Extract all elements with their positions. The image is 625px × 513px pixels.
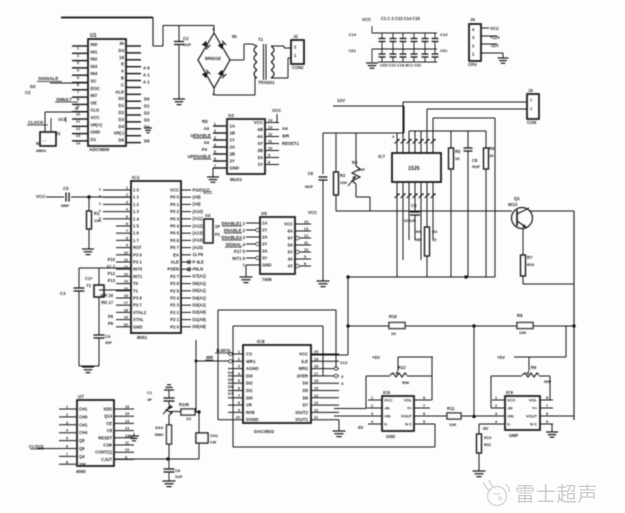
IOUT1 wire to ground bbox=[338, 420, 340, 431]
svg-text:SIGNAL 4: SIGNAL 4 bbox=[225, 242, 245, 247]
IC8 left pin wires bbox=[205, 348, 243, 420]
svg-text:WR: WR bbox=[282, 134, 290, 139]
capacitor C8 column bbox=[464, 131, 481, 277]
svg-text:P 4LE: P 4LE bbox=[193, 259, 205, 264]
svg-text:P0 3: P0 3 bbox=[170, 216, 179, 221]
svg-text:C1M: C1M bbox=[103, 443, 112, 448]
svg-text:INT1 6: INT1 6 bbox=[232, 256, 245, 261]
svg-text:EOC: EOC bbox=[91, 86, 101, 91]
ground below chain bbox=[163, 481, 176, 487]
svg-text:11: 11 bbox=[124, 258, 128, 262]
svg-text:7: 7 bbox=[77, 89, 79, 94]
IC9 output wire to rail bbox=[540, 415, 574, 417]
svg-text:P3 7: P3 7 bbox=[133, 303, 142, 308]
ground below crystal bbox=[82, 366, 94, 373]
svg-text:4060: 4060 bbox=[76, 469, 86, 474]
svg-text:VOL: VOL bbox=[529, 397, 538, 402]
svg-text:A 1: A 1 bbox=[143, 73, 150, 78]
bottom loop wire bbox=[233, 446, 435, 448]
vertical bus to opamp2 input bbox=[473, 326, 475, 417]
IC X2 body bbox=[227, 113, 265, 182]
wire Q1 collector to right rail bbox=[529, 211, 574, 420]
watermark logo bbox=[483, 480, 509, 506]
svg-text:8: 8 bbox=[546, 396, 548, 400]
svg-text:C61: C61 bbox=[440, 48, 448, 53]
svg-text:3: 3 bbox=[495, 412, 497, 416]
svg-text:P0 0: P0 0 bbox=[170, 195, 179, 200]
svg-text:CON2: CON2 bbox=[292, 65, 304, 70]
svg-text:NM: NM bbox=[415, 237, 421, 242]
svg-text:6A: 6A bbox=[288, 229, 293, 234]
1525 top pin wires bbox=[397, 102, 433, 153]
svg-text:VR(+): VR(+) bbox=[91, 122, 103, 127]
svg-text:R6: R6 bbox=[489, 146, 495, 151]
svg-text:D3(A1): D3(A1) bbox=[193, 303, 207, 308]
svg-text:VOL: VOL bbox=[404, 397, 413, 402]
svg-text:D0: D0 bbox=[118, 96, 124, 101]
svg-text:A 6: A 6 bbox=[143, 66, 150, 71]
X2 right pin wires bbox=[265, 108, 300, 165]
svg-text:IC8: IC8 bbox=[257, 339, 265, 345]
svg-text:DGND: DGND bbox=[246, 417, 259, 422]
svg-text:SC: SC bbox=[91, 79, 98, 84]
svg-text:CS: CS bbox=[246, 352, 252, 357]
svg-text:SIGNALE: SIGNALE bbox=[38, 76, 58, 81]
resistor R7 emitter bbox=[521, 228, 575, 284]
svg-text:VOUT: VOUT bbox=[526, 413, 538, 418]
svg-text:C3: C3 bbox=[60, 291, 66, 296]
1525 bottom pin number hatch row bbox=[395, 194, 436, 199]
svg-text:VCC: VCC bbox=[308, 210, 318, 215]
svg-text:3A: 3A bbox=[262, 249, 267, 254]
svg-text:R13: R13 bbox=[484, 435, 492, 440]
wire 1525 to J3 pin2 bbox=[427, 108, 527, 110]
svg-text:T1: T1 bbox=[258, 37, 264, 42]
svg-text:1C2: 1C2 bbox=[340, 360, 348, 365]
resistor R5 column bbox=[449, 131, 461, 277]
U1 right pin wires bbox=[126, 46, 150, 144]
svg-text:17: 17 bbox=[124, 301, 128, 305]
watermark text bbox=[515, 483, 598, 506]
svg-text:1 2: 1 2 bbox=[133, 202, 140, 207]
svg-text:13: 13 bbox=[314, 401, 318, 405]
svg-text:3B: 3B bbox=[257, 148, 263, 153]
svg-text:RESET1: RESET1 bbox=[282, 141, 300, 146]
svg-text:+IN: +IN bbox=[507, 413, 513, 418]
svg-text:IN: IN bbox=[120, 41, 124, 46]
IC7 SG1525 body bbox=[378, 153, 441, 182]
svg-text:P0 5: P0 5 bbox=[170, 231, 179, 236]
svg-text:+5V: +5V bbox=[372, 355, 380, 360]
svg-text:X4: X4 bbox=[205, 213, 211, 218]
svg-text:4B: 4B bbox=[257, 127, 263, 132]
svg-text:C6: C6 bbox=[308, 171, 314, 176]
opamp IC9 body bbox=[505, 390, 540, 438]
svg-text:VCC: VCC bbox=[36, 194, 46, 199]
wire left rail of 1525 bbox=[323, 133, 404, 174]
12V supply rail bbox=[333, 98, 404, 133]
svg-text:P3 1: P3 1 bbox=[133, 260, 142, 265]
svg-text:10K: 10K bbox=[449, 422, 456, 427]
svg-text:...: ... bbox=[43, 137, 46, 142]
connector J3 bbox=[527, 88, 539, 125]
svg-text:4P: 4P bbox=[147, 397, 152, 402]
svg-text:Q6: Q6 bbox=[79, 446, 85, 451]
svg-text:VCC: VCC bbox=[254, 120, 264, 125]
bus wire y326 with R16 R8 bbox=[346, 324, 575, 327]
svg-text:IN3: IN3 bbox=[91, 64, 98, 69]
svg-text:3A: 3A bbox=[257, 155, 263, 160]
svg-text:R11: R11 bbox=[447, 406, 455, 411]
svg-text:XTAL: XTAL bbox=[133, 317, 144, 322]
wire pin row to right column bbox=[433, 118, 495, 277]
svg-text:16: 16 bbox=[125, 405, 129, 409]
svg-text:SIMULT: SIMULT bbox=[56, 97, 72, 102]
IC6 pin wires bbox=[368, 396, 430, 424]
svg-text:3: 3 bbox=[66, 421, 68, 425]
svg-text:Q1: Q1 bbox=[514, 196, 520, 201]
svg-text:19: 19 bbox=[314, 357, 318, 361]
svg-text:C65 C10 C18 8C1 C01: C65 C10 C18 8C1 C01 bbox=[380, 63, 422, 68]
svg-text:10: 10 bbox=[236, 416, 240, 420]
svg-text:D6(A1): D6(A1) bbox=[193, 281, 207, 286]
svg-text:C1 C 2 C13 C14 C15: C1 C 2 C13 C14 C15 bbox=[381, 16, 421, 21]
svg-text:R4: R4 bbox=[416, 229, 422, 234]
svg-text:EA: EA bbox=[173, 252, 179, 257]
svg-text:RD 17: RD 17 bbox=[101, 300, 113, 305]
svg-text:D1: D1 bbox=[118, 103, 124, 108]
svg-text:BRIDGE: BRIDGE bbox=[205, 56, 221, 61]
svg-text:(A12): (A12) bbox=[193, 223, 204, 228]
svg-text:CH1: CH1 bbox=[79, 407, 88, 412]
svg-text:D0(A8): D0(A8) bbox=[193, 324, 207, 329]
svg-text:8051: 8051 bbox=[137, 335, 148, 340]
svg-text:2: 2 bbox=[371, 404, 373, 408]
svg-text:CONT(1): CONT(1) bbox=[95, 450, 112, 455]
IC1 left pin wires bbox=[99, 186, 131, 327]
resistor R8 bbox=[517, 313, 533, 335]
svg-text:D3: D3 bbox=[144, 118, 150, 123]
svg-text:C8: C8 bbox=[107, 428, 113, 433]
capacitor C2 filter bbox=[174, 26, 192, 100]
resistor R6 column bbox=[484, 131, 495, 277]
svg-text:IOUT1: IOUT1 bbox=[295, 417, 308, 422]
svg-text:RST: RST bbox=[133, 245, 142, 250]
svg-text:D2: D2 bbox=[144, 111, 150, 116]
svg-text:R4: R4 bbox=[432, 229, 438, 234]
svg-text:1K: 1K bbox=[489, 153, 494, 158]
svg-text:20: 20 bbox=[314, 350, 318, 354]
svg-text:R1: R1 bbox=[94, 211, 100, 216]
svg-text:1: 1 bbox=[126, 186, 128, 190]
svg-text:EA4: EA4 bbox=[155, 425, 163, 430]
svg-text:P5LN: P5LN bbox=[193, 267, 204, 272]
resistor R1 10K bbox=[87, 197, 102, 249]
svg-text:8: 8 bbox=[238, 401, 240, 405]
X2 ground bbox=[207, 168, 227, 182]
svg-text:20: 20 bbox=[124, 323, 128, 327]
svg-text:4A: 4A bbox=[257, 134, 263, 139]
svg-text:C8: C8 bbox=[472, 158, 478, 163]
svg-text:18: 18 bbox=[314, 365, 318, 369]
svg-text:DI1: DI1 bbox=[246, 388, 253, 393]
svg-text:IC6: IC6 bbox=[383, 390, 390, 395]
svg-text:1 3: 1 3 bbox=[133, 209, 140, 214]
svg-text:12: 12 bbox=[314, 408, 318, 412]
svg-text:CPU: CPU bbox=[468, 62, 477, 67]
svg-text:GND: GND bbox=[91, 130, 101, 135]
svg-text:GND: GND bbox=[230, 166, 240, 171]
svg-text:6: 6 bbox=[66, 445, 68, 449]
chain bottom wire bbox=[169, 458, 199, 460]
svg-text:1P: 1P bbox=[215, 224, 220, 229]
svg-text:7: 7 bbox=[66, 452, 68, 456]
svg-text:VCC: VCC bbox=[91, 115, 101, 120]
svg-text:1U: 1U bbox=[186, 416, 191, 421]
svg-text:U7: U7 bbox=[78, 394, 84, 399]
svg-text:UENABLE: UENABLE bbox=[190, 133, 211, 138]
svg-text:VCC: VCC bbox=[490, 26, 500, 31]
svg-text:-5V: -5V bbox=[482, 426, 489, 431]
svg-text:3: 3 bbox=[126, 200, 128, 204]
svg-text:IN2: IN2 bbox=[91, 57, 98, 62]
svg-text:5A: 5A bbox=[288, 243, 293, 248]
svg-text:8: 8 bbox=[126, 236, 128, 240]
svg-text:1K: 1K bbox=[391, 331, 396, 336]
svg-text:U1: U1 bbox=[90, 33, 97, 39]
svg-text:1B: 1B bbox=[230, 131, 236, 136]
svg-text:D5(A1): D5(A1) bbox=[193, 288, 207, 293]
svg-text:2Y: 2Y bbox=[262, 242, 267, 247]
svg-text:P10: P10 bbox=[108, 257, 116, 262]
svg-text:RD: RD bbox=[202, 119, 208, 124]
svg-text:5: 5 bbox=[423, 420, 425, 424]
svg-text:7: 7 bbox=[126, 229, 128, 233]
svg-text:D1(A9): D1(A9) bbox=[193, 317, 207, 322]
wire top rail from U1 to bridge bbox=[61, 18, 214, 47]
svg-text:D2: D2 bbox=[118, 110, 124, 115]
svg-text:10K: 10K bbox=[519, 330, 526, 335]
transistor Q1 bbox=[508, 196, 533, 229]
svg-text:D1: D1 bbox=[55, 131, 61, 136]
IC8 DAC0832 body bbox=[243, 339, 311, 434]
svg-text:2: 2 bbox=[495, 404, 497, 408]
svg-text:6: 6 bbox=[423, 412, 425, 416]
svg-text:P0 2: P0 2 bbox=[170, 209, 179, 214]
svg-text:CE: CE bbox=[106, 421, 112, 426]
svg-text:3Y: 3Y bbox=[262, 256, 267, 261]
transformer T1 bbox=[252, 37, 275, 85]
svg-text:2Y: 2Y bbox=[230, 159, 235, 164]
svg-text:T0: T0 bbox=[133, 281, 139, 286]
IC1 right pin wires and labels bbox=[181, 187, 213, 329]
svg-text:XTAL2: XTAL2 bbox=[133, 310, 147, 315]
svg-text:DAC0832: DAC0832 bbox=[254, 429, 275, 434]
svg-text:C4: C4 bbox=[411, 203, 417, 208]
X5 ground bbox=[240, 265, 253, 283]
svg-text:1Y: 1Y bbox=[262, 228, 267, 233]
svg-text:5: 5 bbox=[238, 379, 240, 383]
capacitor C9 on pin bbox=[404, 203, 420, 240]
svg-text:IN: IN bbox=[232, 34, 237, 39]
reset circuit VCC C5 R1 bbox=[36, 186, 131, 208]
svg-text:1 0: 1 0 bbox=[133, 188, 140, 193]
svg-text:DI3: DI3 bbox=[246, 373, 253, 378]
svg-text:5Y: 5Y bbox=[288, 250, 293, 255]
svg-text:1525: 1525 bbox=[408, 166, 420, 172]
svg-text:GND: GND bbox=[133, 324, 142, 329]
svg-text:16: 16 bbox=[119, 55, 124, 60]
wire transformer secondary to CON2 bbox=[271, 46, 291, 78]
svg-text:9: 9 bbox=[126, 244, 128, 248]
resistor EA vertical bbox=[155, 425, 172, 444]
potentiometer RW1 bbox=[163, 405, 172, 459]
CONT output wire bbox=[114, 457, 170, 460]
svg-text:VR(-): VR(-) bbox=[114, 131, 125, 136]
svg-text:VCC: VCC bbox=[507, 397, 516, 402]
svg-text:IN0: IN0 bbox=[91, 42, 98, 47]
svg-text:P9: P9 bbox=[108, 321, 114, 326]
svg-text:3Y: 3Y bbox=[258, 162, 263, 167]
svg-text:7: 7 bbox=[546, 404, 548, 408]
svg-text:P2 5: P2 5 bbox=[170, 288, 179, 293]
svg-text:P2 1: P2 1 bbox=[170, 317, 179, 322]
svg-text:CLOCK: CLOCK bbox=[28, 120, 44, 125]
connector J4 bbox=[468, 17, 503, 67]
svg-text:B: B bbox=[121, 76, 124, 81]
svg-text:C14: C14 bbox=[440, 32, 448, 37]
U7 left pin wires bbox=[29, 405, 77, 464]
DAC outer loop wire bbox=[218, 310, 336, 420]
svg-text:ENABLE4 3: ENABLE4 3 bbox=[222, 235, 246, 240]
svg-text:J2: J2 bbox=[293, 34, 298, 39]
svg-text:9013: 9013 bbox=[508, 202, 518, 207]
svg-text:2A: 2A bbox=[262, 235, 267, 240]
svg-text:CH1: CH1 bbox=[210, 433, 219, 438]
svg-text:NUF: NUF bbox=[472, 164, 481, 169]
svg-text:VCC: VCC bbox=[170, 188, 179, 193]
svg-text:10P: 10P bbox=[358, 167, 365, 172]
svg-text:2: 2 bbox=[66, 413, 68, 417]
svg-text:9: 9 bbox=[238, 408, 240, 412]
svg-text:C61: C61 bbox=[349, 48, 357, 53]
svg-text:TRANS1: TRANS1 bbox=[258, 80, 275, 85]
svg-text:(A15): (A15) bbox=[193, 245, 204, 250]
svg-text:X2: X2 bbox=[228, 113, 234, 119]
svg-text:D5: D5 bbox=[303, 388, 309, 393]
svg-text:50K: 50K bbox=[402, 380, 409, 385]
U1 ground at D pins bbox=[144, 128, 152, 133]
svg-text:R8: R8 bbox=[517, 313, 523, 318]
svg-text:Q4: Q4 bbox=[79, 454, 85, 459]
svg-text:1: 1 bbox=[66, 405, 68, 409]
svg-text:1 7: 1 7 bbox=[133, 238, 140, 243]
svg-text:1: 1 bbox=[371, 396, 373, 400]
svg-text:ILE: ILE bbox=[301, 359, 308, 364]
svg-text:16: 16 bbox=[124, 294, 128, 298]
svg-text:R5: R5 bbox=[455, 149, 461, 154]
svg-text:R3: R3 bbox=[352, 160, 358, 165]
svg-text:P17 5: P17 5 bbox=[234, 249, 246, 254]
svg-text:19: 19 bbox=[124, 316, 128, 320]
svg-text:R146: R146 bbox=[179, 402, 190, 407]
X2 left pin wires with labels bbox=[188, 119, 227, 168]
capacitor bank lower row C16-C20 bbox=[372, 49, 439, 68]
svg-text:C2: C2 bbox=[183, 36, 189, 41]
svg-text:ALE: ALE bbox=[115, 89, 124, 94]
svg-text:Y1: Y1 bbox=[86, 283, 92, 288]
capacitor C6 bbox=[305, 171, 328, 281]
svg-text:OE: OE bbox=[91, 100, 97, 105]
wire 1525 to J3 pin1 bbox=[403, 101, 527, 103]
IC9 pin wires bbox=[492, 396, 553, 424]
svg-text:VCC: VCC bbox=[203, 190, 213, 195]
IC6 input wire bbox=[334, 409, 368, 431]
svg-text:R03: R03 bbox=[527, 262, 535, 267]
svg-text:1 4: 1 4 bbox=[133, 216, 140, 221]
svg-text:P12: P12 bbox=[108, 271, 116, 276]
U7 ground stub bbox=[129, 433, 139, 441]
svg-text:3: 3 bbox=[238, 365, 240, 369]
svg-text:CM: CM bbox=[210, 440, 216, 445]
svg-text:13: 13 bbox=[125, 427, 129, 431]
svg-text:(A9): (A9) bbox=[193, 202, 202, 207]
svg-text:R12: R12 bbox=[398, 365, 406, 370]
wire bridge to transformer bbox=[214, 44, 255, 95]
label SIGNALE input bbox=[25, 76, 88, 111]
svg-text:-IN: -IN bbox=[384, 405, 389, 410]
svg-text:A 1: A 1 bbox=[143, 80, 150, 85]
svg-text:ALE: ALE bbox=[171, 260, 180, 265]
ground below R13 bbox=[473, 471, 486, 477]
svg-text:1: 1 bbox=[238, 350, 240, 354]
svg-text:5: 5 bbox=[546, 420, 548, 424]
svg-text:RFB: RFB bbox=[246, 410, 255, 415]
svg-text:A4: A4 bbox=[282, 126, 288, 131]
svg-text:P2 6: P2 6 bbox=[170, 281, 179, 286]
potentiometer R3 bbox=[348, 133, 370, 211]
svg-text:P9: P9 bbox=[108, 314, 114, 319]
svg-text:VCC: VCC bbox=[384, 397, 393, 402]
svg-text:11: 11 bbox=[314, 416, 318, 420]
svg-text:P2 7: P2 7 bbox=[170, 274, 179, 279]
IC X5 7406 body bbox=[260, 211, 295, 282]
svg-text:Y+: Y+ bbox=[532, 405, 538, 410]
svg-text:VOUT: VOUT bbox=[401, 413, 413, 418]
svg-text:D6: D6 bbox=[303, 395, 309, 400]
svg-text:IN1: IN1 bbox=[91, 49, 98, 54]
svg-text:(A10): (A10) bbox=[193, 209, 204, 214]
svg-text:D1: D1 bbox=[144, 104, 150, 109]
svg-text:PSEN: PSEN bbox=[167, 267, 179, 272]
svg-text:8: 8 bbox=[423, 396, 425, 400]
svg-text:1UF: 1UF bbox=[175, 474, 183, 479]
crystal CM1 bbox=[196, 433, 219, 445]
svg-text:6: 6 bbox=[238, 387, 240, 391]
svg-text:11: 11 bbox=[125, 441, 129, 445]
svg-text:NUF: NUF bbox=[305, 184, 314, 189]
svg-text:+5V: +5V bbox=[497, 355, 505, 360]
svg-text:WR: WR bbox=[206, 355, 213, 360]
X5 right pin wires bbox=[295, 210, 318, 268]
svg-text:-5V: -5V bbox=[357, 425, 364, 430]
svg-text:1 1: 1 1 bbox=[133, 195, 140, 200]
svg-text:WR1: WR1 bbox=[246, 359, 256, 364]
svg-text:12: 12 bbox=[125, 434, 129, 438]
bus wire y277 bbox=[346, 275, 495, 278]
svg-text:P2 4: P2 4 bbox=[170, 296, 179, 301]
svg-text:D4: D4 bbox=[144, 125, 150, 130]
